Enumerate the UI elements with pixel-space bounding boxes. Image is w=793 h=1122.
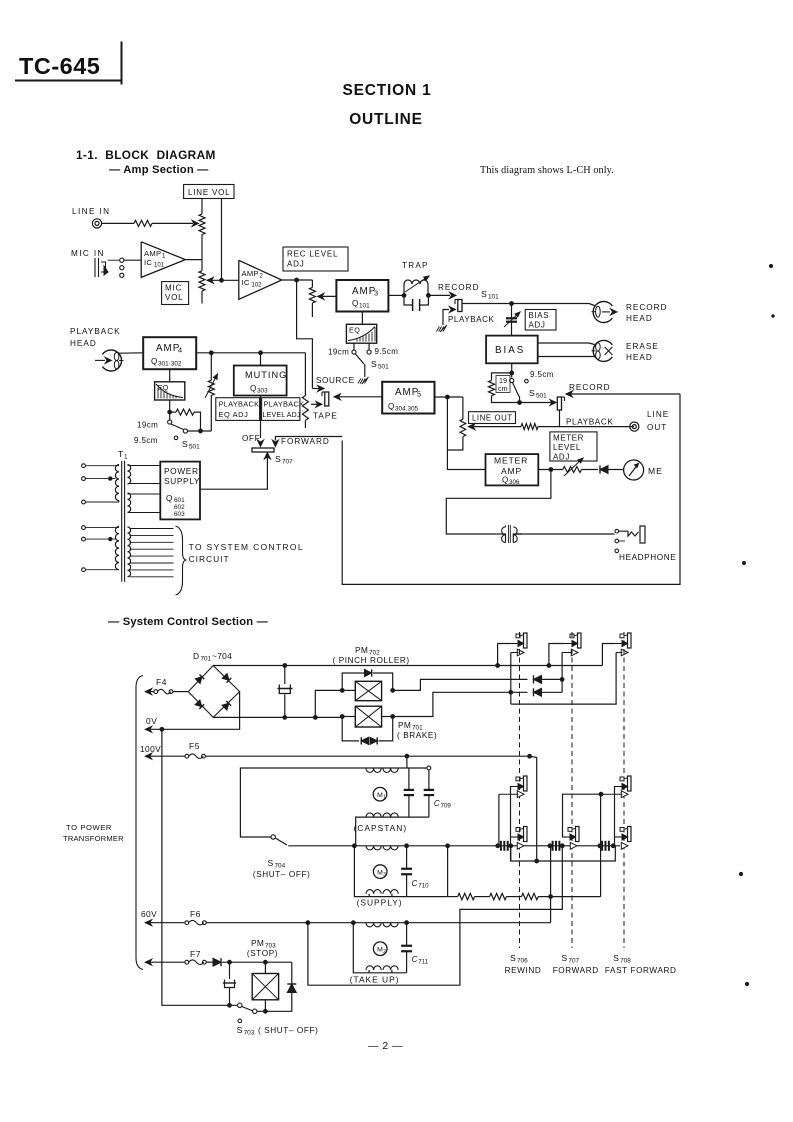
switch S501 playback speed [168,420,172,424]
potentiometer line out level [462,397,464,419]
op-amp AMP2 IC102 [239,260,282,299]
wire S706 glyph leads [498,794,500,846]
svg-text:706: 706 [517,958,528,965]
svg-text:RECORD: RECORD [438,283,479,292]
wire resistor row feed [447,846,449,897]
wire resistor to LINE VOL pot with arrow [152,222,193,224]
svg-text:5: 5 [417,390,421,399]
svg-text:ME: ME [648,466,663,476]
svg-text:19: 19 [499,378,507,385]
svg-text:2: 2 [260,274,264,280]
svg-text:SUPPLY: SUPPLY [164,476,200,486]
connector LINE IN jack [92,219,101,228]
brace to system control [176,526,187,595]
scan speck right margin 1 [770,265,773,268]
switch S707 motor glyph [576,827,580,842]
connector MIC IN jack [94,258,96,277]
svg-text:C: C [412,879,418,888]
svg-text:LEVEL: LEVEL [553,443,581,452]
svg-text:VOL: VOL [165,293,183,302]
svg-text:ADJ: ADJ [529,321,546,330]
svg-text:304.305: 304.305 [395,406,419,413]
svg-text:1-1. BLOCK DIAGRAM: 1-1. BLOCK DIAGRAM [76,148,216,162]
potentiometer playback level [304,353,306,396]
svg-text:( SHUT– OFF): ( SHUT– OFF) [258,1026,318,1035]
svg-text:Q: Q [166,494,173,503]
playback head [102,350,121,371]
wire PM701 right to S706 column [393,692,528,716]
contact S706 capacitor [500,841,502,851]
contact S707 capacitor [552,841,554,851]
wire 60V rail [145,920,151,926]
wire S501 to record/playback switch [520,402,557,404]
svg-text:BIAS: BIAS [529,311,550,320]
wire S101 to record head [462,303,512,305]
svg-text:AMP: AMP [156,343,180,354]
wire line out pot with arrow and resistor [469,424,475,430]
wire S501 to trimmer junction [188,430,212,432]
dashed line S706 [519,632,521,948]
wire record enable from right border [566,391,572,397]
svg-text:306: 306 [509,479,520,486]
svg-text:PM: PM [355,645,368,655]
oscillator BIAS box [486,336,538,364]
svg-text:EQ: EQ [349,326,360,335]
wire switch to line out [560,410,635,427]
resistor brake network 3 [522,893,539,899]
svg-text:METER: METER [553,434,584,443]
svg-text:707: 707 [282,459,293,466]
capacitor filter [284,666,286,685]
motor M3 supply winding top [366,846,398,850]
svg-text:HEAD: HEAD [626,314,653,323]
svg-text:S: S [561,953,567,963]
transformer secondary winding 1 [128,465,161,484]
wire bridge to 0V rail [162,692,240,730]
svg-text:REWIND: REWIND [505,966,542,975]
wire EQ to S501 playback speed [169,400,171,420]
switch S708 pinch glyph [628,633,632,648]
svg-text:1: 1 [124,454,128,461]
contact S708 capacitor [601,841,603,851]
wire motor common rail [288,845,620,847]
svg-text:RECORD: RECORD [626,303,667,312]
wire LINE VOL box right leg [221,199,223,281]
svg-text:(SHUT– OFF): (SHUT– OFF) [253,870,311,879]
svg-text:S: S [182,439,188,449]
svg-text:F4: F4 [156,677,167,687]
wire FORWARD contact to border [275,437,342,441]
scan speck right margin 2 [772,315,774,317]
svg-text:Q: Q [250,384,257,393]
switch S501 record speed contacts [353,343,355,350]
svg-text:FAST FORWARD: FAST FORWARD [605,966,677,975]
motor M2 winding bottom [366,966,398,970]
record head [593,302,612,323]
label box BIAS ADJ [525,310,556,331]
wire SOURCE feed from AMP2 junction [297,280,313,389]
motor M1 capstan winding top [366,768,398,772]
wire S707 glyph lead [563,794,602,837]
fuse F6 [185,921,189,925]
svg-text:D: D [193,651,199,661]
svg-text:S: S [613,953,619,963]
switch S501 bias speed [510,378,514,382]
svg-text:S: S [510,953,516,963]
svg-text:MIC: MIC [165,284,182,293]
switch S703 shut-off [238,1003,242,1007]
wire AMP4 out bus [196,352,305,354]
wire rail to S708 glyph [602,644,614,666]
diode meter rectifier [600,466,608,474]
wire M1 bottom rail [356,817,429,846]
dashed line S707 [571,632,573,948]
svg-text:LINE VOL: LINE VOL [188,188,230,197]
label box MIC VOL [162,282,189,305]
svg-text:HEADPHONE: HEADPHONE [619,553,676,562]
svg-text:TO SYSTEM CONTROL: TO SYSTEM CONTROL [189,542,304,552]
svg-text:S: S [529,388,535,398]
headphone transformer [497,525,522,543]
svg-text:(CAPSTAN): (CAPSTAN) [354,823,408,833]
wire BIAS bottom to S501 rec eq switch [511,363,513,377]
svg-text:100V: 100V [140,744,161,754]
svg-text:2: 2 [383,949,386,955]
label box METER LEVEL ADJ [550,432,597,461]
svg-text:ADJ: ADJ [287,260,305,269]
svg-text:EQ ADJ: EQ ADJ [219,410,249,419]
svg-text:BIAS: BIAS [495,345,525,356]
wire muting feed [260,353,262,366]
wire M3 loop [354,846,369,897]
svg-text:707: 707 [568,958,579,965]
svg-text:3: 3 [383,872,386,878]
erase head [593,340,612,361]
svg-text:S: S [268,858,274,868]
svg-text:TRAP: TRAP [402,261,429,270]
transformer primary upper winding [82,464,119,504]
svg-text:CIRCUIT: CIRCUIT [189,554,230,564]
svg-text:Q: Q [151,357,158,366]
svg-text:501: 501 [189,444,200,451]
motor M1 winding bottom [366,813,398,817]
svg-text:S: S [371,359,377,369]
svg-text:501: 501 [378,364,389,371]
diode stop feed [213,958,221,966]
svg-text:1: 1 [383,795,386,801]
wire AMP5 junction down to meter amp [447,397,485,470]
svg-text:102: 102 [252,283,263,289]
svg-text:C: C [434,799,440,808]
svg-text:101: 101 [154,263,165,269]
transformer secondary winding 3 system control [128,527,174,577]
wire S707 top switch lead [561,653,563,680]
svg-text:— 2 —: — 2 — [368,1040,403,1052]
svg-text:PLAYBACK: PLAYBACK [448,315,495,324]
capacitor C711 [406,923,408,946]
wire auxiliary rail under switches [511,846,616,861]
svg-text:AMP: AMP [395,387,419,398]
motor M1 capstan [373,787,387,801]
svg-text:AMP: AMP [352,286,376,297]
svg-text:19cm: 19cm [137,421,158,430]
switch S707 pinch glyph [578,633,582,648]
resistor series line-in [134,220,152,226]
fuse F4 and feed arrow [145,689,151,695]
wire switch to AMP5 with arrow [334,394,340,400]
potentiometer MIC VOL [201,248,203,271]
solenoid PM701 brake [355,706,381,727]
label box REC LEVEL ADJ [283,247,348,271]
svg-text:704: 704 [275,863,286,870]
wire bridge positive rail [213,665,602,667]
transformer primary lower winding [82,526,119,572]
svg-text:1: 1 [162,254,166,260]
switch S704 shut-off [271,835,275,839]
svg-text:ADJ: ADJ [553,453,570,462]
svg-text:101: 101 [359,303,370,310]
label box LINE OUT [469,412,516,424]
svg-text:101: 101 [488,294,499,301]
svg-text:cm: cm [498,386,508,393]
svg-text:LINE IN: LINE IN [72,207,110,216]
svg-text:708: 708 [620,958,631,965]
svg-text:REC LEVEL: REC LEVEL [287,250,338,259]
wire power supply to S707 [264,453,270,459]
svg-text:SOURCE: SOURCE [316,376,355,385]
svg-text:PLAYBACK: PLAYBACK [264,400,305,409]
wire playback level wiper to TAPE contact [316,401,322,407]
wire MIC jack to AMP1 [124,259,141,261]
svg-text:IC: IC [144,258,152,267]
potentiometer LINE VOL [201,199,203,215]
capacitor capstan phase [408,768,410,790]
svg-text:703: 703 [244,1030,255,1037]
svg-text:PM: PM [398,720,411,730]
wire PM702 right to S707 column [393,679,528,690]
switch S707 forward-off [252,448,274,452]
equalizer EQ playback [155,382,185,400]
svg-text:— System Control Section —: — System Control Section — [108,616,269,628]
svg-text:FORWARD: FORWARD [553,966,599,975]
svg-text:TAPE: TAPE [313,412,338,421]
wire trap to S101 RECORD contact [428,294,450,296]
svg-text:TRANSFORMER: TRANSFORMER [63,834,124,843]
switch S706 motor glyph upper [524,776,528,791]
trap variable inductor [404,280,428,295]
switch S708 motor glyph lower [628,827,632,842]
svg-text:PM: PM [251,938,264,948]
svg-text:METER: METER [494,456,528,466]
wire AMP3 to record EQ [361,312,363,325]
svg-text:3: 3 [374,289,378,298]
meter ME [624,460,644,480]
wire S708 glyph pole lead [614,787,616,846]
svg-text:501: 501 [536,393,547,400]
op-amp AMP1 IC101 [141,242,185,278]
svg-text:9.5cm: 9.5cm [530,370,554,379]
svg-text:This diagram shows L-CH only.: This diagram shows L-CH only. [480,165,614,176]
svg-text:Q: Q [388,402,395,411]
dashed line S708 [623,632,625,948]
solenoid PM702 pinch roller [355,681,381,700]
wire AMP2 out to REC LEVEL pot [282,279,313,281]
svg-text:602: 602 [174,504,185,511]
svg-text:603: 603 [174,511,185,518]
svg-text:710: 710 [418,883,429,890]
wire take-up riser to S707 rail [550,846,552,923]
wire MUTING to OFF contact [260,396,262,439]
capstan supply box left edge [240,768,429,837]
resistor brake network 1 [458,893,475,899]
meter amp METER AMP Q306 [486,454,539,485]
wire 0V down to S703 [162,729,238,1005]
svg-text:60V: 60V [141,909,157,919]
svg-text:PLAYBACK: PLAYBACK [219,400,260,409]
svg-text:FORWARD: FORWARD [281,437,330,446]
svg-text:709: 709 [441,803,452,810]
rectifier bridge D701-704 [188,666,239,718]
label box LINE VOL [184,185,234,199]
wire pinch roller diode bus [534,675,542,683]
diode PM702 protection [342,673,364,690]
motor M2 take-up [373,942,387,956]
wire 60V branch to S707 bottom loop [308,846,562,985]
svg-text:601: 601 [174,497,185,504]
capacitor C710 [406,846,408,869]
S101 playback contact arrow and ground [449,307,455,313]
svg-text:MIC IN: MIC IN [71,249,105,258]
capacitor stop timing [229,962,231,979]
svg-text:POWER: POWER [164,466,199,476]
motor M2 take-up winding top [366,923,398,927]
svg-text:S: S [481,289,487,299]
svg-text:~704: ~704 [212,651,232,661]
svg-text:OUT: OUT [647,423,667,432]
svg-text:F6: F6 [190,909,201,919]
svg-text:19cm: 19cm [328,348,349,357]
svg-text:MUTING: MUTING [245,370,287,380]
resistor bias 19cm leg [492,373,512,381]
svg-text:9.5cm: 9.5cm [134,436,158,445]
wire PM702 left to negative rail [315,690,342,717]
svg-text:701: 701 [201,656,212,663]
svg-text:(TAKE UP): (TAKE UP) [350,975,400,985]
muting MUTING Q303 [234,366,287,396]
resistor brake network 2 [490,893,507,899]
switch S708 motor glyph upper [628,776,632,791]
wire bridge negative rail [213,716,342,718]
svg-text:LINE OUT: LINE OUT [472,414,513,423]
trimmer capacitor bias adj [506,317,517,319]
resistor playback eq leg [176,409,194,415]
wire LINE IN to resistor [102,222,134,224]
svg-text:IC: IC [242,278,250,287]
label box PLAYBACK EQ ADJ [216,398,260,421]
switch S706 pinch glyph [524,633,528,648]
svg-text:HEAD: HEAD [70,339,97,348]
svg-text:RECORD: RECORD [569,383,610,392]
svg-text:LINE: LINE [647,410,669,419]
trimmer resistor playback eq adj [210,353,212,380]
wire playback head to AMP4 [119,352,144,354]
wire amp section record loop border [342,394,680,584]
wire REC LEVEL wiper to AMP3 with arrow [318,293,324,299]
svg-text:S: S [237,1025,243,1035]
wires BIAS to erase head [538,343,595,345]
motor M3 winding bottom [366,890,398,894]
svg-text:AMP: AMP [242,269,259,278]
svg-text:( BRAKE): ( BRAKE) [397,731,437,740]
wire M2 loop [353,923,369,973]
svg-text:F7: F7 [190,949,201,959]
svg-text:4: 4 [178,346,182,355]
label box PLAYBACK LEVEL ADJ [262,398,300,421]
wire AMP5 out [435,396,463,398]
svg-text:TO POWER: TO POWER [66,823,112,832]
wire transformer to headphone jack [516,533,615,535]
potentiometer REC LEVEL [309,287,315,303]
wire rail risers to top glyphs [498,644,510,666]
wire meter amp junction to headphone transformer [446,470,551,535]
wire METER AMP out [538,469,563,471]
svg-text:LEVEL ADJ: LEVEL ADJ [263,412,301,419]
svg-text:F5: F5 [189,741,200,751]
fuse F7 and arrow [145,959,151,965]
svg-text:SECTION 1: SECTION 1 [342,82,431,99]
transformer secondary winding 2 [128,493,161,513]
svg-text:AMP: AMP [144,249,161,258]
motor M3 supply [373,865,387,879]
fuse F5 and 100V rail [145,753,151,759]
svg-text:HEAD: HEAD [626,353,653,362]
svg-text:PLAYBACK: PLAYBACK [566,418,613,427]
svg-text:(STOP): (STOP) [247,949,278,958]
wire S706 top switch lead [510,653,512,705]
svg-text:( PINCH ROLLER): ( PINCH ROLLER) [333,656,410,665]
connector LINE OUT [630,422,639,431]
transformer T1 core [121,461,123,582]
switch source-tape [325,392,329,406]
amplifier AMP5 Q304-305 [382,382,434,414]
svg-text:TC-645: TC-645 [19,53,100,79]
diode PM703 protection [257,962,292,1011]
scan speck right margin 4 [739,872,742,875]
svg-text:Q: Q [502,476,509,485]
switch S101 [458,300,462,312]
svg-text:711: 711 [418,959,428,966]
svg-text:301·302: 301·302 [158,361,182,368]
svg-text:9.5cm: 9.5cm [375,347,399,356]
amplifier AMP4 Q301-302 [143,337,196,369]
power supply POWER SUPPLY Q601-603 [160,462,200,520]
amplifier AMP3 Q101 [336,280,388,312]
wire resistor row to S708 riser [538,896,600,898]
diode pair PM701 [342,717,359,741]
switch S707 record-playback [557,397,561,410]
svg-text:PLAYBACK: PLAYBACK [70,327,121,336]
bracket to power transformer [136,676,143,970]
svg-text:AMP: AMP [501,466,522,476]
svg-text:OFF: OFF [242,434,260,443]
solenoid PM703 stop [264,962,266,973]
trap capacitor [404,295,428,305]
svg-text:S: S [275,454,281,464]
wire MIC VOL wiper to AMP2 with arrow and junction [207,277,213,283]
svg-text:303: 303 [257,388,268,395]
svg-text:Q: Q [352,299,359,308]
svg-text:OUTLINE: OUTLINE [349,111,423,128]
